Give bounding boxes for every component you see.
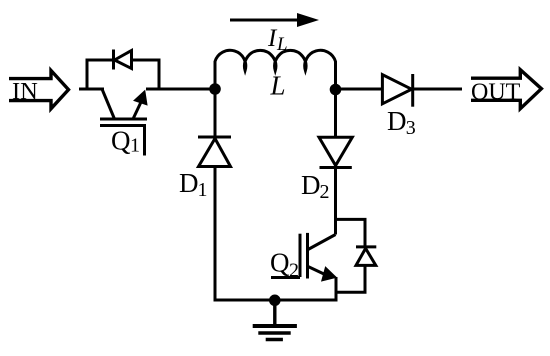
port arrow OUT [471, 70, 541, 109]
diode D3 [382, 74, 412, 107]
transistor Q1 (IGBT) [100, 89, 147, 156]
svg-text:L: L [270, 71, 286, 101]
svg-text:2: 2 [289, 260, 299, 282]
wire Q2 emitter to bottom rail [335, 277, 338, 302]
anti-parallel diode of Q1 [114, 50, 132, 70]
svg-text:D: D [179, 168, 199, 198]
svg-text:Q: Q [270, 248, 290, 278]
wire node B to D3 [336, 88, 383, 91]
svg-text:2: 2 [320, 181, 330, 203]
svg-text:Q: Q [111, 126, 131, 156]
inductor L [215, 50, 336, 94]
diode D1 [198, 137, 231, 167]
wire Q1 emitter to node A [146, 88, 215, 91]
svg-text:OUT: OUT [471, 79, 521, 105]
wire node A to D1 [214, 89, 217, 137]
svg-text:IN: IN [12, 78, 38, 105]
node A junction dot [209, 83, 221, 95]
ground junction dot [269, 295, 281, 307]
port arrow IN [9, 71, 69, 109]
svg-text:D: D [387, 106, 407, 136]
diode D2 [319, 137, 352, 167]
anti-parallel diode branch of Q2 [336, 219, 366, 292]
anti-parallel diode of Q2 [356, 247, 376, 266]
current arrow I_L [230, 13, 319, 27]
wire D2 to Q2 collector [334, 168, 337, 235]
transistor Q2 (IGBT) [271, 233, 336, 281]
svg-text:D: D [301, 170, 321, 200]
svg-text:3: 3 [406, 117, 416, 139]
node B junction dot [330, 84, 342, 96]
bottom rail wire [215, 299, 336, 302]
anti-parallel diode branch over Q1 [87, 60, 159, 89]
wire IN to Q1 collector [79, 88, 104, 91]
wire D3 to OUT [413, 88, 462, 91]
svg-text:L: L [276, 34, 288, 55]
svg-text:1: 1 [130, 135, 140, 157]
ground symbol [253, 300, 297, 340]
wire node B to D2 [334, 90, 337, 138]
svg-text:1: 1 [198, 179, 208, 201]
wire D1 to bottom rail [214, 167, 217, 302]
